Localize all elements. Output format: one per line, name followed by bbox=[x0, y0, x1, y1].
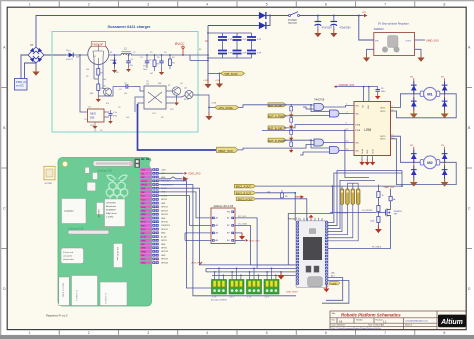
audio jack bbox=[61, 248, 84, 264]
svg-text:CS/GPIO9: CS/GPIO9 bbox=[161, 225, 170, 227]
net label MOT_B_PWM bbox=[268, 138, 286, 143]
svg-text:GPIO15: GPIO15 bbox=[141, 185, 147, 187]
ground M2 lower right bbox=[441, 178, 449, 187]
transistor Q1 pass element bbox=[88, 42, 109, 65]
svg-text:A3: A3 bbox=[339, 319, 343, 323]
wire gate row 3 bbox=[238, 140, 328, 155]
level shifter U8 bbox=[211, 205, 235, 244]
svg-text:R5: R5 bbox=[86, 76, 88, 78]
svg-text:VMID_5V0: VMID_5V0 bbox=[426, 39, 439, 43]
net label ENCODER B bbox=[234, 191, 255, 195]
wire teensy top stubs bbox=[300, 218, 322, 221]
USB connector 1 bbox=[72, 276, 98, 306]
pin numbers red bbox=[346, 104, 350, 151]
supercap C11 C12 column 2 bbox=[233, 37, 242, 54]
svg-text:GND: GND bbox=[161, 218, 166, 220]
AND gate U6A bbox=[312, 104, 324, 111]
svg-text:10n: 10n bbox=[124, 93, 127, 95]
svg-text:R4: R4 bbox=[172, 57, 174, 59]
pin numbers red L298 right bbox=[391, 106, 394, 140]
wire TB1 stubs bbox=[215, 268, 224, 279]
white ruler band bbox=[1, 1, 472, 7]
resistor R6 divider bbox=[96, 75, 104, 102]
annotation tiny marks right of charger bbox=[199, 49, 202, 51]
bridge rectifier D5 bbox=[28, 44, 44, 63]
svg-text:7: 7 bbox=[384, 3, 386, 7]
svg-text:GPIO4: GPIO4 bbox=[161, 199, 167, 201]
power stub M2 right bbox=[441, 145, 445, 149]
transistor Q4 can bbox=[181, 88, 193, 99]
capacitor C8 bbox=[375, 87, 385, 100]
wire J1 to bridge bbox=[21, 55, 36, 79]
RAM chip bbox=[62, 199, 87, 224]
pin row 11 Raspberry Pi GPIO bbox=[140, 205, 152, 208]
svg-text:100k: 100k bbox=[370, 221, 374, 223]
svg-text:M2: M2 bbox=[427, 160, 433, 165]
net label VUSB at Teensy bbox=[330, 281, 341, 285]
svg-text:IRLB8721: IRLB8721 bbox=[394, 211, 402, 213]
wire bridge top to top rail bbox=[36, 16, 259, 48]
svg-text:74HCT08: 74HCT08 bbox=[314, 99, 325, 102]
wire mosfet source to teensy gnd bbox=[328, 216, 391, 249]
net label MOT_B_DIR bbox=[268, 126, 286, 131]
svg-text:BVCC: BVCC bbox=[175, 42, 185, 46]
net label MOT_A_PWM bbox=[268, 114, 286, 119]
wire encoder 2 bbox=[256, 193, 295, 221]
svg-text:D: D bbox=[3, 287, 6, 291]
diode D12 M2 upper left bbox=[411, 149, 417, 163]
pin row 1 Raspberry Pi GPIO bbox=[140, 168, 152, 171]
ground MOSFET chain bbox=[375, 225, 382, 233]
svg-text:PWR_IN: PWR_IN bbox=[16, 80, 26, 84]
wire encoder 3 bbox=[256, 199, 307, 221]
svg-text:1: 1 bbox=[29, 3, 31, 7]
svg-text:I2C_SDA: I2C_SDA bbox=[238, 223, 247, 226]
resistor R3 vertical bbox=[153, 55, 160, 71]
pin row 9 Raspberry Pi GPIO bbox=[140, 198, 152, 202]
wire gate4 output to IC bbox=[339, 150, 349, 152]
wire thick battery output bbox=[138, 104, 217, 150]
capacitor C3 bbox=[159, 55, 164, 75]
resistor R7 1k bbox=[377, 192, 384, 198]
wire shifter B2 I2C SDA bbox=[235, 225, 250, 265]
svg-text:4: 4 bbox=[206, 331, 208, 335]
svg-text:Teensy 3.1: Teensy 3.1 bbox=[288, 217, 300, 220]
terminal block TB1 encoder bbox=[212, 280, 227, 299]
svg-text:R3: R3 bbox=[157, 57, 159, 59]
svg-text:VDIG_5V0: VDIG_5V0 bbox=[188, 171, 201, 175]
svg-text:4007: 4007 bbox=[76, 57, 80, 59]
svg-text:Date: 9/26/2017: Date: 9/26/2017 bbox=[332, 324, 345, 327]
power arrow 3V3 red bbox=[295, 195, 304, 198]
wire teensy right to gates verticals bbox=[328, 130, 402, 228]
svg-text:C3: C3 bbox=[164, 52, 166, 54]
svg-text:GPIO5: GPIO5 bbox=[161, 240, 167, 242]
svg-text:GPIO13: GPIO13 bbox=[161, 251, 168, 253]
wire VDRIVE rail bbox=[337, 87, 378, 102]
svg-text:(Y5): (Y5) bbox=[113, 116, 117, 118]
svg-text:MOT_A_PWM: MOT_A_PWM bbox=[268, 116, 284, 119]
svg-text:C5: C5 bbox=[150, 52, 152, 54]
camera CSI slot bbox=[68, 226, 109, 234]
pin stubs L298 left bbox=[350, 106, 355, 151]
ground under bridge bbox=[32, 68, 39, 76]
svg-text:C: C bbox=[3, 207, 6, 211]
timer U2 555 bbox=[88, 107, 110, 129]
wire status ground stub bbox=[208, 107, 210, 113]
svg-text:TLC: TLC bbox=[84, 119, 88, 121]
diode D9 M1 upper right bbox=[442, 81, 448, 95]
diode D13 M2 upper right bbox=[442, 149, 448, 163]
small box run header bbox=[87, 182, 96, 191]
svg-text:5: 5 bbox=[266, 3, 268, 7]
svg-text:File: C:\Users\Documents\Robo: File: C:\Users\Documents\Robotic\Robotic… bbox=[332, 327, 382, 330]
svg-text:ENC1_B OUT: ENC1_B OUT bbox=[236, 192, 252, 195]
resistor R5 divider bbox=[97, 65, 104, 76]
power port BVCC bbox=[175, 42, 185, 55]
svg-text:Revision: Revision bbox=[376, 319, 383, 321]
svg-text:A14: A14 bbox=[331, 275, 334, 278]
svg-text:composite: composite bbox=[63, 255, 73, 258]
pin row 12 Raspberry Pi GPIO bbox=[140, 209, 152, 212]
svg-text:Raspberry Pi mo 3: Raspberry Pi mo 3 bbox=[46, 314, 68, 318]
svg-text:47k: 47k bbox=[106, 103, 109, 105]
Teensy 3.1 module U9 bbox=[288, 217, 329, 287]
diode D15 M2 lower right bbox=[442, 162, 448, 179]
svg-text:1k: 1k bbox=[382, 195, 384, 197]
wire bridge bottom to ground bbox=[35, 63, 37, 69]
wire mid row bbox=[108, 87, 145, 97]
pin row 8 Raspberry Pi GPIO bbox=[140, 194, 152, 197]
svg-text:5V Step-up/down Regulator: 5V Step-up/down Regulator bbox=[378, 23, 409, 26]
resistor pulldown RN2 bbox=[289, 115, 293, 128]
svg-text:ENC2_A OUT: ENC2_A OUT bbox=[238, 198, 253, 201]
svg-text:3: 3 bbox=[147, 331, 149, 335]
pin row 19 Raspberry Pi GPIO bbox=[140, 235, 152, 239]
svg-text:3.5mm aud: 3.5mm aud bbox=[63, 252, 73, 254]
CPU box bbox=[105, 199, 126, 227]
power stub red small near cap bank bbox=[205, 40, 208, 42]
svg-text:1 2 3: 1 2 3 bbox=[265, 296, 269, 298]
outer gray edges bbox=[0, 0, 474, 1]
wire header tops to bus bbox=[342, 183, 358, 189]
svg-text:GEN0: GEN0 bbox=[141, 207, 146, 209]
ground M1 lower left bbox=[410, 110, 418, 119]
AND gate U6B bbox=[328, 110, 340, 117]
svg-text:Title:: Title: bbox=[332, 312, 337, 315]
svg-text:2: 2 bbox=[88, 3, 90, 7]
svg-text:GPIO26: GPIO26 bbox=[161, 262, 168, 264]
power stub M2 left bbox=[410, 145, 414, 149]
pin row 17 Raspberry Pi GPIO bbox=[140, 228, 152, 231]
mounting hole bottom mid bbox=[118, 297, 122, 301]
svg-text:M1: M1 bbox=[427, 91, 433, 96]
svg-text:SCL1: SCL1 bbox=[141, 196, 145, 198]
ground regulator left bbox=[363, 54, 370, 62]
svg-text:C: C bbox=[468, 207, 471, 211]
power stub VS M1 left bbox=[410, 77, 414, 81]
pin row 25 Raspberry Pi GPIO bbox=[140, 257, 152, 261]
wire teensy right loop down bbox=[322, 278, 349, 304]
regulator module U5 bbox=[374, 23, 415, 56]
svg-text:Ethernet RJ45: Ethernet RJ45 bbox=[62, 283, 65, 298]
wire Q1 legs to divider bbox=[94, 65, 108, 97]
transistor Q3 bbox=[172, 87, 180, 106]
svg-text:Gossamer 6421 charger: Gossamer 6421 charger bbox=[107, 25, 151, 29]
switch S1 POWER SWITCH bbox=[288, 12, 300, 25]
svg-text:1GB RAM: 1GB RAM bbox=[97, 209, 100, 218]
wire gate1 output to IC bbox=[324, 106, 350, 108]
small component top right of Pi bbox=[135, 159, 141, 168]
svg-text:4k7: 4k7 bbox=[150, 73, 153, 75]
MOSFET gate chain vertical bbox=[377, 185, 379, 227]
diode D10 M1 lower left bbox=[411, 94, 417, 111]
svg-text:FB3000F: FB3000F bbox=[92, 42, 103, 46]
svg-text:VUSB: VUSB bbox=[331, 283, 337, 285]
svg-text:1k0: 1k0 bbox=[103, 79, 106, 81]
USB connector 2 bbox=[100, 282, 127, 306]
diode D11 M1 lower right bbox=[442, 94, 448, 111]
node junctions on rail bbox=[114, 54, 184, 56]
power text VDIG_5V0 bbox=[185, 171, 201, 175]
wire regulator gnd left bbox=[367, 49, 374, 54]
wire rail to switch bbox=[266, 15, 289, 17]
svg-text:GEN6: GEN6 bbox=[141, 248, 146, 250]
pin rows Teensy left and right bbox=[296, 221, 299, 223]
wire feedback left branch bbox=[80, 55, 88, 112]
svg-text:10k: 10k bbox=[285, 196, 288, 198]
svg-text:GND: GND bbox=[161, 244, 166, 246]
svg-text:GPIO6: GPIO6 bbox=[161, 248, 167, 250]
header J2 gold pins bbox=[340, 189, 344, 205]
raspberry logo bbox=[106, 175, 128, 201]
pin row 26 Raspberry Pi GPIO bbox=[140, 261, 152, 264]
wire Pi I2C to level shifter pin2 bbox=[159, 196, 212, 226]
motor M1 bbox=[420, 87, 440, 100]
svg-text:GND: GND bbox=[367, 149, 369, 154]
wire mosfet drain bbox=[390, 189, 392, 210]
svg-text:VBAT_5V0: VBAT_5V0 bbox=[384, 186, 395, 189]
pin row 16 Raspberry Pi GPIO bbox=[140, 224, 152, 227]
terminal block TB2 encoder bbox=[229, 280, 244, 299]
svg-text:EN B: EN B bbox=[356, 130, 361, 132]
diode D2 vertical bbox=[110, 55, 117, 73]
svg-text:ENC1_A OUT: ENC1_A OUT bbox=[236, 186, 251, 189]
svg-text:4N2: 4N2 bbox=[158, 83, 161, 85]
capacitor C1 beside 555 bbox=[108, 110, 118, 124]
wire cap bank rails bbox=[208, 33, 252, 58]
svg-text:+5VB: +5VB bbox=[211, 103, 217, 105]
connector J1 PWR_IN bbox=[15, 79, 28, 91]
capacitor C5 bbox=[143, 55, 152, 68]
svg-text:GPIO27: GPIO27 bbox=[161, 210, 168, 212]
wire shifter B4 to VDIG bbox=[235, 239, 245, 241]
svg-text:OUT1: OUT1 bbox=[380, 107, 386, 109]
svg-text:GPIO19: GPIO19 bbox=[161, 259, 168, 261]
wire L298 OUT1 to M1 bbox=[391, 94, 421, 108]
resistor R8 bbox=[377, 206, 380, 212]
wire TB2 stubs bbox=[232, 268, 241, 279]
wire Pi 5V to VDIG bbox=[159, 172, 184, 174]
charger block box bbox=[52, 32, 198, 133]
svg-text:1 2 3: 1 2 3 bbox=[230, 296, 234, 298]
svg-text:OUT2: OUT2 bbox=[380, 111, 386, 113]
resistor R4 vertical on rail bbox=[169, 55, 176, 69]
power symbol 3V3 Teensy top bbox=[309, 215, 314, 221]
svg-text:Camera CSI: Camera CSI bbox=[68, 226, 84, 230]
capacitor C6 47uF bbox=[314, 15, 332, 38]
svg-text:5V PWR: 5V PWR bbox=[45, 183, 53, 185]
svg-text:OUT4: OUT4 bbox=[380, 139, 386, 141]
power port +5V rail end bbox=[362, 12, 368, 17]
svg-text:VDIG_5V0: VDIG_5V0 bbox=[249, 240, 260, 242]
svg-text:2: 2 bbox=[88, 331, 90, 335]
svg-text:40x GPIO pins: 40x GPIO pins bbox=[116, 247, 118, 261]
net label ENCODER A bbox=[234, 184, 255, 188]
pin row 5 Raspberry Pi GPIO bbox=[140, 183, 152, 187]
svg-text:D1: D1 bbox=[66, 50, 68, 52]
terminal block TB4 encoder bbox=[264, 280, 279, 299]
wire charger main rail bbox=[66, 54, 183, 56]
pin row 23 Raspberry Pi GPIO bbox=[140, 250, 152, 253]
title block bbox=[330, 311, 466, 330]
mounting hole top left bbox=[62, 161, 67, 166]
svg-text:ID_SD: ID_SD bbox=[141, 237, 147, 239]
pin row 24 Raspberry Pi GPIO bbox=[140, 254, 152, 258]
svg-text:SenA: SenA bbox=[361, 149, 364, 154]
wire Pi I2C to level shifter pin1 bbox=[159, 192, 212, 218]
wire gate row 1 bbox=[239, 105, 328, 116]
IC U3 controller bbox=[140, 84, 171, 110]
wire Pi to level shifter pin3 bbox=[185, 233, 212, 241]
wire shifter B1 I2C SCL bbox=[235, 218, 257, 269]
svg-text:Time: 10:34:41 AM: Time: 10:34:41 AM bbox=[368, 324, 384, 327]
RAM small box bbox=[97, 203, 104, 218]
wire rail after switch bbox=[300, 15, 362, 17]
svg-text:MOT_B_PWM: MOT_B_PWM bbox=[268, 140, 284, 143]
wire L298 OUT2 to M1 right bbox=[391, 94, 457, 118]
pin row 3 Raspberry Pi GPIO bbox=[140, 176, 152, 179]
svg-text:1.1: 1.1 bbox=[383, 320, 387, 324]
svg-text:S&R2097: S&R2097 bbox=[374, 29, 385, 31]
svg-text:6: 6 bbox=[325, 331, 327, 335]
diode D14 M2 lower left bbox=[411, 162, 417, 179]
ethernet connector bbox=[59, 277, 70, 306]
pin row 18 Raspberry Pi GPIO bbox=[140, 231, 152, 234]
Altium logo bbox=[438, 315, 466, 328]
wire scap label bbox=[208, 72, 221, 74]
motor M2 bbox=[420, 156, 440, 169]
pin row 10 Raspberry Pi GPIO bbox=[140, 202, 152, 206]
svg-text:D: D bbox=[468, 287, 471, 291]
capacitor C4 mid bbox=[120, 83, 133, 89]
wire gate2 output to IC bbox=[339, 113, 349, 115]
svg-text:GPIO17: GPIO17 bbox=[161, 207, 168, 209]
svg-text:+3V3: +3V3 bbox=[141, 170, 145, 172]
pin row 7 Raspberry Pi GPIO bbox=[140, 191, 152, 194]
wire Pi wrap vertical 2 bbox=[159, 185, 296, 296]
wire gate3 output to IC bbox=[324, 142, 350, 144]
svg-text:GPIO22: GPIO22 bbox=[161, 214, 168, 216]
pin row 14 Raspberry Pi GPIO bbox=[140, 217, 152, 221]
pin row 20 Raspberry Pi GPIO bbox=[140, 239, 152, 243]
svg-text:8: 8 bbox=[443, 3, 445, 7]
svg-text:64bit 4core: 64bit 4core bbox=[106, 212, 118, 215]
annotation tiny texts charger bbox=[66, 50, 189, 132]
Raspberry Pi 3 board U7 bbox=[58, 158, 152, 307]
svg-text:Sheet of: Sheet of bbox=[405, 324, 413, 327]
svg-text:LPDDR2: LPDDR2 bbox=[64, 210, 74, 213]
ground regulator right bbox=[417, 54, 424, 62]
svg-text:Robotic Platform Schematics: Robotic Platform Schematics bbox=[341, 313, 401, 318]
small box 1-wire a bbox=[85, 167, 98, 179]
svg-text:SWITCH: SWITCH bbox=[288, 23, 297, 25]
svg-text:47uF/25V: 47uF/25V bbox=[322, 28, 332, 30]
svg-text:POWER: POWER bbox=[288, 20, 297, 22]
ground bus right bbox=[278, 271, 285, 280]
svg-text:BD13: BD13 bbox=[184, 99, 189, 101]
mounting hole top right bbox=[150, 159, 161, 170]
supercap C13 C14 column 3 bbox=[247, 37, 256, 54]
wire regulator gnd right bbox=[415, 49, 422, 54]
svg-text:CPU/GPU: CPU/GPU bbox=[106, 203, 116, 205]
net label MOT_A_EN bbox=[268, 103, 286, 108]
pads top edge bbox=[141, 158, 144, 160]
svg-text:GPIO10: GPIO10 bbox=[161, 222, 168, 224]
svg-text:GEN2: GEN2 bbox=[141, 211, 146, 213]
svg-text:Number: Number bbox=[356, 318, 363, 321]
svg-text:Size: Size bbox=[332, 319, 336, 321]
svg-text:ext DC: ext DC bbox=[16, 84, 24, 88]
net label ENCODER C bbox=[236, 197, 256, 201]
svg-text:SDA1: SDA1 bbox=[141, 187, 145, 190]
svg-text:1 2 3: 1 2 3 bbox=[212, 296, 216, 298]
svg-text:R8: R8 bbox=[161, 117, 163, 119]
AND gate U6C bbox=[312, 139, 324, 146]
svg-text:680: 680 bbox=[90, 93, 93, 95]
svg-text:GPIO14: GPIO14 bbox=[141, 181, 147, 183]
power stub VS M1 right bbox=[441, 77, 445, 81]
svg-text:Display DSI: Display DSI bbox=[98, 168, 113, 172]
svg-text:ID_SD: ID_SD bbox=[161, 236, 167, 238]
fuse F1 bbox=[389, 196, 396, 201]
svg-text:Altium: Altium bbox=[440, 319, 463, 326]
svg-text:R1: R1 bbox=[110, 52, 112, 54]
svg-text:TH_MOSW: TH_MOSW bbox=[362, 210, 372, 212]
wire cap bank left vertical bbox=[207, 26, 209, 82]
terminal block TB3 encoder bbox=[247, 280, 262, 299]
svg-text:MISO: MISO bbox=[141, 225, 146, 227]
wire TB3 stubs bbox=[250, 268, 259, 279]
diode D8 M1 upper left bbox=[411, 81, 417, 95]
svg-text:470uF/25V: 470uF/25V bbox=[340, 28, 352, 30]
svg-text:6: 6 bbox=[325, 3, 327, 7]
svg-text:GND: GND bbox=[161, 203, 166, 205]
svg-text:+3V3: +3V3 bbox=[161, 169, 165, 171]
svg-text:555: 555 bbox=[90, 116, 95, 120]
wire L298 OUT4 to M2 right bbox=[391, 139, 457, 185]
svg-text:VIN: VIN bbox=[375, 40, 379, 42]
wire vertical x402 joins bbox=[401, 171, 403, 187]
net label scap bbox=[221, 72, 245, 77]
inductor L2 bbox=[121, 48, 131, 56]
ground M2 lower left bbox=[410, 178, 418, 187]
ground cap bank left bbox=[204, 80, 211, 88]
svg-text:GEN5: GEN5 bbox=[141, 240, 146, 242]
svg-text:100n: 100n bbox=[143, 69, 147, 71]
svg-text:(7): (7) bbox=[94, 130, 97, 132]
svg-text:10k: 10k bbox=[267, 191, 270, 193]
